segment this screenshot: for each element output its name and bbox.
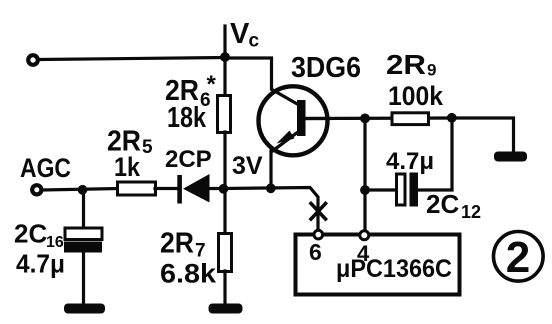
svg-text:6: 6 [309,239,322,265]
wire: 2R7 to ground [223,271,226,306]
svg-text:2R: 2R [160,228,194,260]
wire: to top-right ground [452,118,514,154]
pin 4 terminal [360,231,369,240]
wire: node to 2C12 [365,188,397,191]
node: Vc junction [220,52,230,62]
wire: 2R5 to diode [155,187,178,190]
wire: terminal to Vc node [40,58,226,60]
node: diode/2R6/2R7 junction [219,184,229,194]
wire: base node down to pin 4 [363,119,366,232]
wire: base line [305,116,452,120]
wire: node down to 2R7 [223,189,226,234]
resistor 2R7 [219,234,232,272]
wire: Vc node down to 2R6 [223,57,226,96]
wire: emitter down [269,151,272,189]
IC U1 uPC1366C [296,235,460,295]
svg-text:c: c [249,31,260,52]
node: 2C12 left junction [360,185,370,195]
resistor 2R5 [118,182,156,195]
node: 2R9 right junction [447,113,457,123]
label 2R5 [107,126,153,159]
svg-text:18k: 18k [167,102,207,134]
svg-text:3V: 3V [232,152,263,180]
wire: Vc stub [223,26,226,57]
capacitor 2C12 [397,173,419,207]
svg-text:4.7μ: 4.7μ [386,148,434,175]
transistor Q1 3DG6 [259,86,330,155]
wire: 2C12 to 2R9 right node [418,118,452,190]
svg-text:4.7μ: 4.7μ [16,249,65,279]
resistor 2R9 [392,113,429,125]
wire: 2R6 to AGC line [223,132,226,188]
svg-text:2C: 2C [14,219,47,249]
wire: diode to node [210,187,225,190]
resistor 2R6 [218,96,231,133]
diode 2CP [177,174,209,204]
label 2R7 [160,228,206,262]
svg-text:1k: 1k [114,152,141,182]
wire: down to 2C16 [82,190,85,229]
ground (bottom middle) [209,304,243,314]
svg-text:μPC1366C: μPC1366C [336,255,452,283]
svg-text:3DG6: 3DG6 [291,52,361,84]
svg-text:2: 2 [506,233,530,282]
label 2C16 [14,219,64,252]
wire: AGC line to pin 6 [224,188,318,231]
svg-text:2CP: 2CP [165,146,212,173]
svg-text:2C: 2C [426,189,459,219]
svg-text:12: 12 [461,202,481,222]
ground (bottom left) [64,304,105,314]
input terminal (top left) [28,55,38,65]
adjustment mark X [311,204,326,220]
node: emitter junction [266,183,276,193]
label 2R6* [165,71,217,111]
svg-text:2R: 2R [386,49,426,80]
capacitor 2C16 [64,228,102,253]
input terminal (AGC) [32,185,41,194]
svg-text:9: 9 [427,61,436,80]
svg-text:AGC: AGC [20,153,71,183]
label 2R9 [386,49,436,80]
label 2C12 [426,189,481,222]
label Vc [230,18,260,52]
ground (top right) [494,152,527,162]
node: base/2R9 left junction [360,114,370,124]
figure number 2 [494,231,544,282]
wire: Vc node to collector [225,58,272,89]
svg-text:V: V [230,18,250,50]
node: AGC junction [78,185,88,195]
pin 6 terminal [314,230,323,239]
wire: 2C16 to ground [82,252,85,306]
svg-text:100k: 100k [388,81,444,111]
svg-text:*: * [207,71,217,98]
wire: AGC to 2R5 [43,189,118,191]
svg-text:5: 5 [142,137,153,158]
svg-text:6.8k: 6.8k [160,259,217,289]
